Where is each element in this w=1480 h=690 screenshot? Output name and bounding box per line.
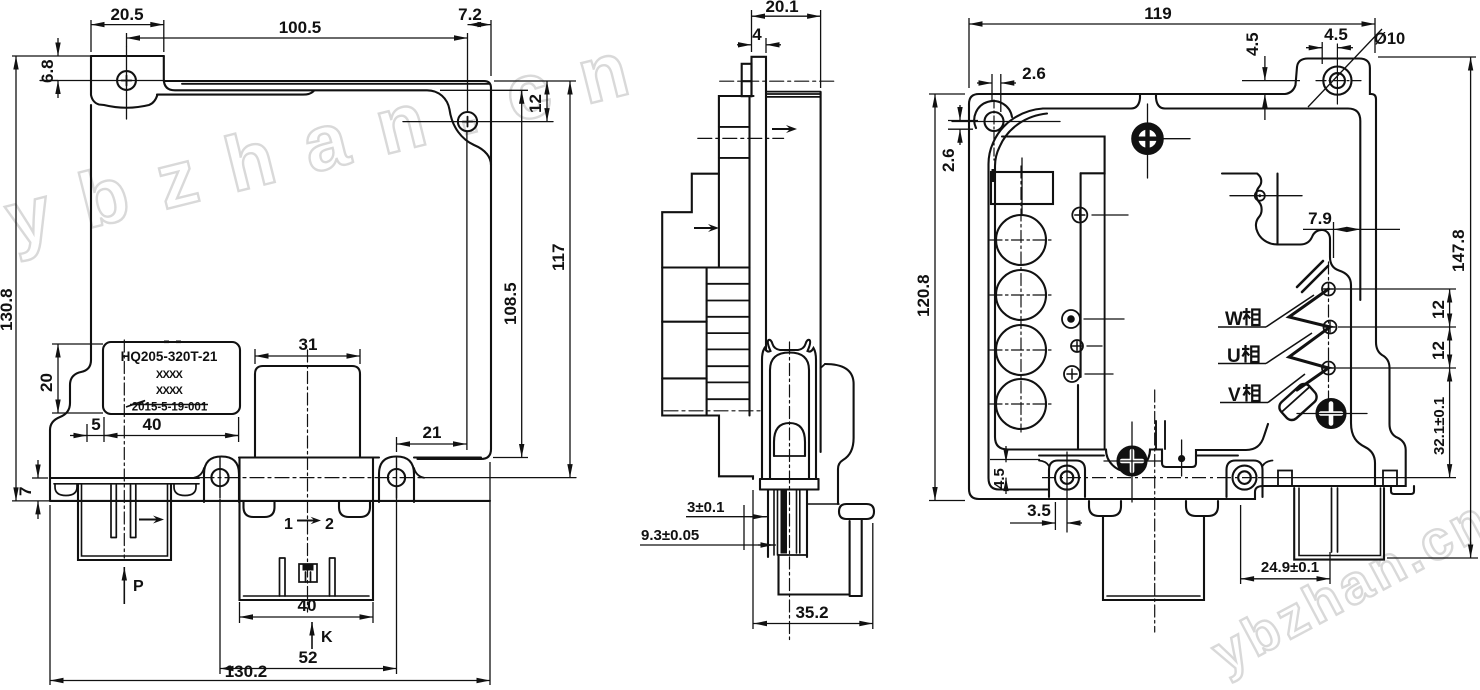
right view: terminal lug bottom — [1277, 381, 1320, 423]
svg-text:P: P — [133, 578, 144, 595]
dim 4.5 top horizontal — [1321, 42, 1323, 64]
svg-text:100.5: 100.5 — [279, 18, 322, 37]
middle view: tab boss block — [742, 64, 752, 96]
left view: nameplate label box — [103, 342, 240, 414]
svg-text:2.6: 2.6 — [939, 148, 958, 172]
dim 32.1±0.1 — [1449, 368, 1451, 478]
dim 20 label — [52, 343, 103, 345]
right view: shelf left of top bolt — [1002, 137, 1105, 174]
svg-text:12: 12 — [526, 94, 545, 113]
dim 100.5 — [126, 33, 128, 47]
dim 7.2 — [490, 20, 492, 76]
svg-text:2015-5-19-001: 2015-5-19-001 — [132, 402, 208, 414]
dim 12 extensions — [1336, 288, 1456, 290]
right view: slot above K connector — [1156, 421, 1165, 449]
middle view: flow arrow upper — [772, 125, 797, 133]
dim 12 — [494, 80, 576, 82]
dim 4.5 vertical — [1264, 56, 1266, 81]
right view: cavity bottom with bolt pocket — [1106, 424, 1268, 472]
left view: mounting hole 2 — [458, 112, 477, 131]
dim 117 — [569, 81, 571, 478]
svg-text:XXXX: XXXX — [156, 385, 184, 397]
svg-text:20.5: 20.5 — [110, 5, 143, 24]
arrow P — [123, 567, 125, 604]
dim 130.8 — [12, 500, 50, 502]
svg-text:Ø10: Ø10 — [1374, 30, 1405, 48]
left view: top edge — [164, 56, 491, 165]
left view: centerline P — [123, 340, 125, 558]
right view: bottom bolt right — [1317, 399, 1346, 428]
right view: P connector back — [1294, 488, 1384, 560]
right view: terminals — [1322, 283, 1335, 296]
left view: left edge lower steps — [50, 105, 91, 478]
right view: castellated boss — [1222, 174, 1278, 245]
right view: inner shell S-wall outer — [989, 109, 1050, 490]
svg-text:2: 2 — [325, 516, 334, 533]
dim 52 — [219, 499, 221, 674]
dim 24.9±0.1 — [1240, 505, 1242, 584]
middle view: slab left edge — [765, 97, 767, 350]
dim 31 — [254, 349, 256, 364]
right view: small dot — [1178, 455, 1185, 462]
middle view: slab right edge — [820, 92, 822, 452]
svg-text:12: 12 — [1429, 341, 1448, 360]
middle view: tower inner capsule — [770, 353, 809, 480]
right view: top bolt — [1135, 126, 1160, 151]
right view: ear boss left — [1049, 461, 1085, 498]
svg-text:117: 117 — [549, 244, 568, 271]
right view: inner wall right of capacitors — [1080, 173, 1082, 377]
svg-text:2.6: 2.6 — [1022, 64, 1046, 83]
middle view: top tab — [752, 57, 767, 97]
right view: top-left hole — [974, 101, 1012, 128]
middle view: bottom box — [779, 521, 850, 595]
dim 6.8 — [12, 55, 91, 57]
right view: terminal lug top — [1297, 261, 1328, 292]
svg-text:1: 1 — [284, 516, 293, 533]
right view: small screw a — [1072, 208, 1087, 223]
dim 9.3±0.05 leader — [640, 544, 776, 546]
left view: flow arrow 1-2 — [297, 517, 321, 525]
middle view: staircase inner lines — [748, 96, 750, 416]
dim 119 — [968, 18, 970, 88]
middle view: flange edge lines — [766, 92, 821, 97]
dim 2.6 top — [991, 74, 993, 101]
svg-text:7.2: 7.2 — [458, 5, 482, 24]
dim 3.5 — [1054, 502, 1056, 530]
watermark bottom-right — [1202, 487, 1480, 685]
left view: base foot notches — [55, 484, 77, 496]
right view: cavity ledge lines — [1039, 455, 1238, 457]
middle view: right bracket — [825, 364, 854, 504]
svg-text:5: 5 — [91, 415, 100, 434]
watermark top-left — [0, 16, 668, 263]
dim Φ10 leader — [1308, 29, 1382, 107]
dim 108.5 — [440, 89, 528, 91]
svg-text:4: 4 — [752, 25, 762, 44]
dim 4 — [765, 38, 767, 53]
left view: body outline — [91, 55, 164, 57]
svg-text:52: 52 — [299, 648, 318, 667]
left view: flow arrow near P — [139, 516, 164, 524]
middle view: tower centerline — [789, 342, 791, 640]
dim 40 K connector — [239, 602, 241, 623]
svg-text:3.5: 3.5 — [1027, 501, 1051, 520]
svg-text:40: 40 — [143, 415, 162, 434]
svg-text:130.8: 130.8 — [0, 288, 16, 331]
middle view: pin block below tower — [768, 490, 807, 558]
left view: K connector boss — [255, 366, 360, 458]
right view: phase zigzag — [1289, 289, 1330, 390]
leader U — [1218, 363, 1266, 365]
svg-text:XXXX: XXXX — [156, 369, 184, 381]
svg-text:HQ205-320T-21: HQ205-320T-21 — [121, 349, 218, 364]
dim 35.2 — [752, 490, 754, 629]
arrow 1 to 2 — [297, 520, 308, 522]
right view: capacitor circles — [996, 215, 1046, 265]
middle view: flow arrow lower — [694, 224, 719, 232]
svg-text:108.5: 108.5 — [501, 282, 520, 325]
svg-text:40: 40 — [298, 596, 317, 615]
right view: small screw b — [1062, 310, 1080, 328]
right view: boss notch circle — [1255, 191, 1265, 201]
svg-text:20: 20 — [37, 373, 56, 392]
svg-text:9.3±0.05: 9.3±0.05 — [641, 527, 699, 544]
svg-text:4.5: 4.5 — [991, 468, 1008, 489]
middle view: inner pin dome — [774, 423, 805, 456]
svg-text:20.1: 20.1 — [765, 0, 798, 16]
middle view: left staircase profile — [662, 96, 753, 479]
left view: mounting ear 1 — [204, 457, 239, 503]
svg-text:K: K — [321, 629, 333, 646]
dim 3±0.1 leader — [686, 516, 768, 518]
svg-text:120.8: 120.8 — [914, 274, 933, 317]
dim 20.5 — [90, 20, 92, 52]
svg-text:6.8: 6.8 — [38, 59, 57, 83]
right view: inner rect component — [991, 172, 1053, 204]
left view: base strip — [50, 477, 199, 479]
svg-text:24.9±0.1: 24.9±0.1 — [1261, 559, 1319, 576]
dim 120.8 — [929, 93, 965, 95]
svg-text:147.8: 147.8 — [1449, 229, 1468, 272]
svg-text:130.2: 130.2 — [225, 662, 268, 681]
dim 130.2 — [49, 505, 51, 685]
left view: mounting hole 1 — [117, 71, 136, 90]
svg-text:12: 12 — [1429, 300, 1448, 319]
right view: foot bump lower right — [1391, 486, 1414, 494]
right view: top-right mounting hole — [1323, 67, 1351, 95]
arrow K — [311, 622, 313, 649]
left view: mounting ear 2 — [379, 457, 414, 503]
middle view: bracket foot — [839, 504, 874, 519]
left view: centerline through ears — [200, 477, 420, 479]
right view: outer body outline — [969, 59, 1406, 500]
svg-text:21: 21 — [423, 423, 442, 442]
middle view: connector tower outline — [762, 340, 816, 479]
right view: small screw d — [1064, 366, 1080, 382]
dim 12 upper — [1449, 289, 1451, 327]
right view: bottom bolt left — [1118, 447, 1147, 476]
svg-text:7.9: 7.9 — [1308, 209, 1332, 228]
leader W — [1218, 326, 1266, 328]
leader V — [1220, 402, 1268, 404]
svg-text:31: 31 — [299, 335, 318, 354]
dim 7.9 — [1333, 222, 1335, 258]
dim 20.1 — [751, 10, 753, 52]
svg-text:4.5: 4.5 — [1243, 32, 1262, 56]
middle view: centerline rows — [720, 80, 835, 82]
dim 21 — [396, 437, 398, 452]
left view: P connector — [78, 484, 171, 560]
svg-text:7: 7 — [16, 487, 35, 496]
svg-text:32.1±0.1: 32.1±0.1 — [1431, 397, 1448, 455]
dim 4.5 bottom left — [990, 459, 1040, 461]
svg-text:4.5: 4.5 — [1324, 25, 1348, 44]
right view: inner shell top edge — [1043, 94, 1360, 300]
dim 2.6 left — [948, 120, 978, 122]
svg-text:35.2: 35.2 — [795, 603, 828, 622]
right view: K connector back box — [1103, 516, 1204, 600]
left view: centerline K — [307, 350, 309, 612]
svg-text:3±0.1: 3±0.1 — [687, 499, 724, 516]
left view: top edge second line — [182, 83, 489, 85]
left view: K connector body — [244, 502, 275, 517]
right view: connector feet bumps — [1278, 471, 1292, 487]
svg-text:119: 119 — [1144, 4, 1171, 23]
dim 7 strip — [32, 477, 48, 479]
left view: flange top edges between ears — [239, 456, 481, 458]
right view: ear boss right — [1227, 461, 1263, 498]
right view: K connector back bells — [1089, 501, 1121, 516]
middle view: collar — [760, 479, 819, 490]
middle view: fins — [707, 284, 750, 399]
right view: small screw c — [1071, 340, 1083, 352]
dim 12 lower — [1449, 327, 1451, 368]
dim 147.8 — [1378, 56, 1476, 58]
right view: inner shell S-wall inner — [995, 114, 1106, 450]
dim 5 and 40 label — [86, 424, 88, 442]
